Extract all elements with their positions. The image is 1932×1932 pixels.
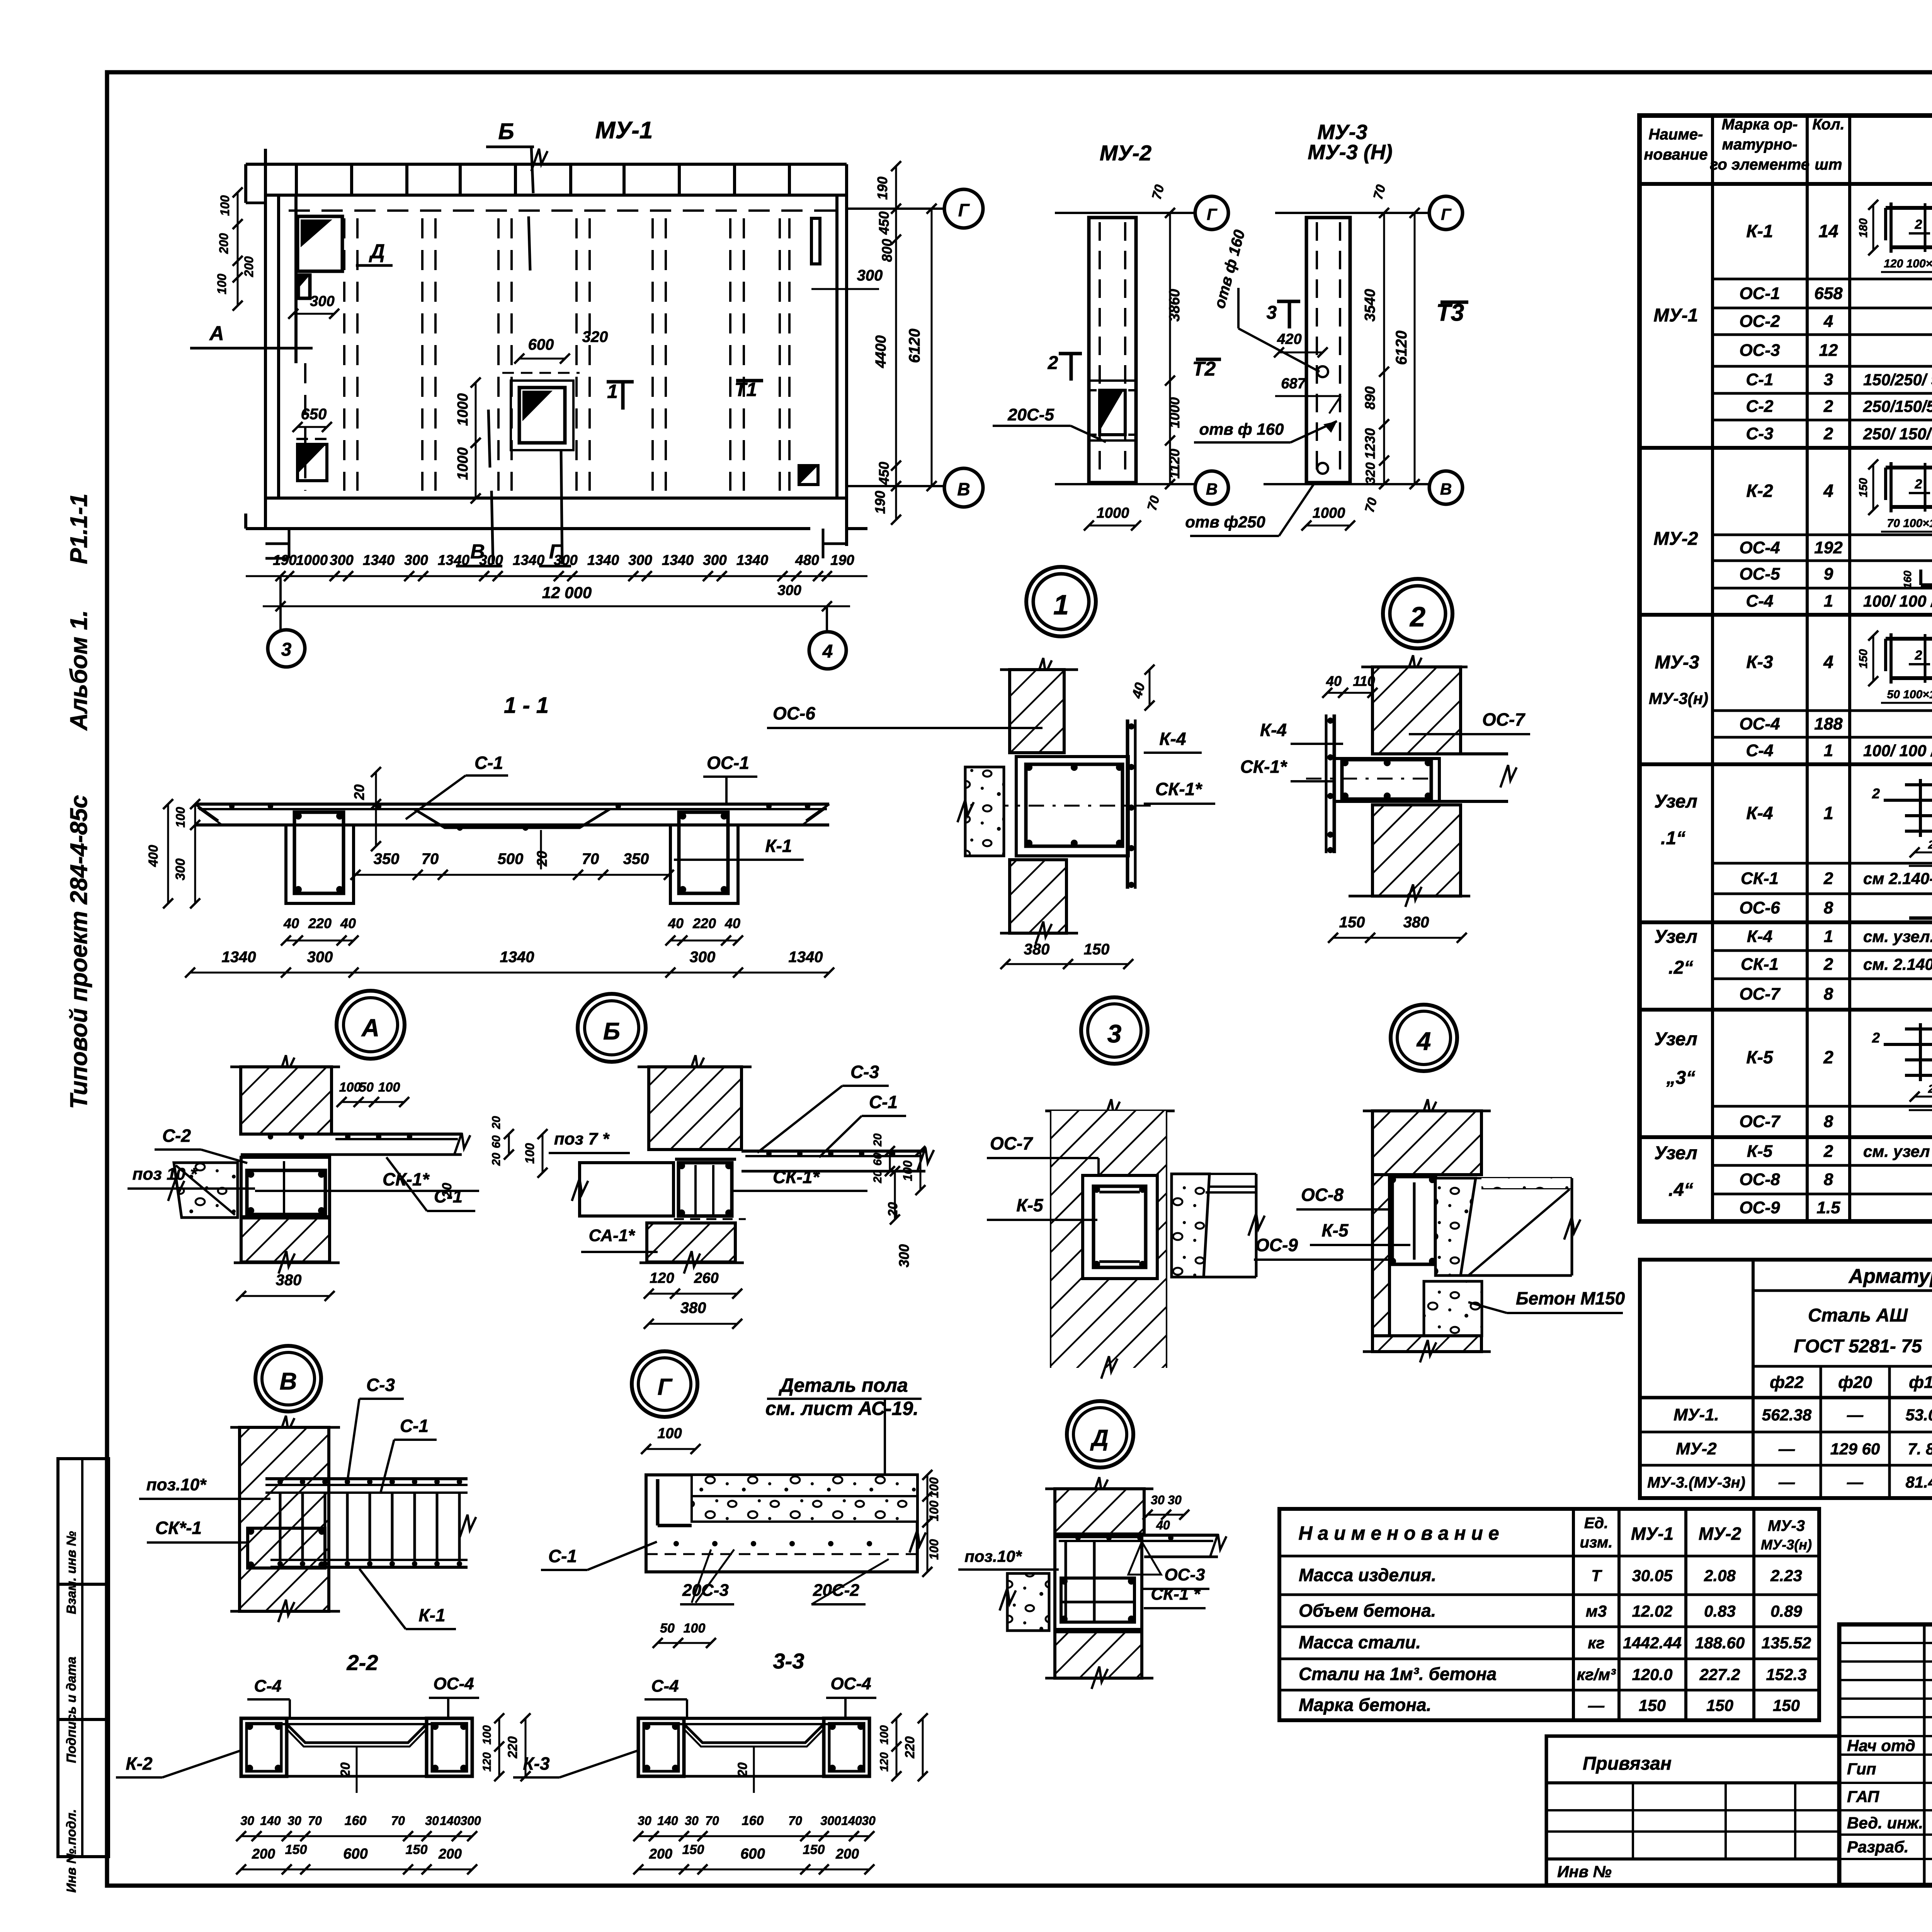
svg-text:160: 160 [742, 1813, 764, 1828]
svg-text:ОС-3: ОС-3 [1164, 1565, 1205, 1584]
svg-text:20: 20 [338, 1762, 353, 1777]
svg-text:кг: кг [1588, 1634, 1605, 1652]
svg-text:2: 2 [1915, 217, 1922, 232]
МУ-3 strip [1306, 218, 1350, 483]
svg-text:см. узел. „1“: см. узел. „1“ [1863, 927, 1932, 946]
svg-text:70: 70 [582, 850, 599, 867]
svg-text:ОС-2: ОС-2 [1739, 312, 1780, 331]
svg-text:С-4: С-4 [651, 1677, 679, 1696]
svg-text:1000: 1000 [296, 552, 328, 568]
МУ-2 labels [993, 353, 1221, 442]
svg-text:МУ-2: МУ-2 [1100, 141, 1151, 165]
svg-text:40: 40 [724, 915, 740, 931]
МУ-2 axis lines [1055, 196, 1228, 504]
svg-text:2: 2 [1872, 1030, 1880, 1046]
svg-text:60: 60 [490, 1135, 503, 1148]
svg-text:—: — [1778, 1473, 1795, 1491]
svg-text:Г: Г [1441, 205, 1452, 223]
svg-text:1: 1 [607, 381, 618, 402]
svg-text:1 - 1: 1 - 1 [504, 693, 549, 718]
svg-text:300: 300 [404, 552, 428, 568]
svg-text:152.3: 152.3 [1766, 1665, 1806, 1684]
svg-text:188: 188 [1814, 714, 1843, 733]
svg-text:380: 380 [680, 1299, 706, 1316]
svg-text:поз.10*: поз.10* [146, 1475, 207, 1494]
svg-text:100/ 100 / 5/ 5. В= 1100: 100/ 100 / 5/ 5. В= 1100 [1863, 742, 1932, 760]
svg-text:ф16: ф16 [1909, 1373, 1932, 1392]
svg-text:160: 160 [1901, 570, 1913, 588]
svg-text:—: — [1778, 1440, 1795, 1458]
svg-text:70: 70 [1149, 183, 1167, 201]
svg-text:1000: 1000 [455, 393, 471, 426]
svg-text:МУ-3(н): МУ-3(н) [1649, 689, 1708, 707]
svg-text:30: 30 [1168, 1493, 1182, 1507]
svg-text:С-1: С-1 [434, 1186, 463, 1206]
svg-text:200: 200 [649, 1846, 672, 1862]
section 1-1 dims between beams [350, 850, 674, 880]
svg-text:562.38: 562.38 [1762, 1406, 1812, 1424]
svg-text:150: 150 [406, 1842, 428, 1857]
svg-text:50 100×15 200×16 100×15 70: 50 100×15 200×16 100×15 70 [1887, 688, 1932, 701]
svg-text:100: 100 [481, 1725, 493, 1745]
svg-text:480: 480 [795, 552, 819, 568]
svg-text:ОС-5: ОС-5 [1739, 565, 1780, 583]
svg-text:81.40: 81.40 [1905, 1473, 1932, 1491]
svg-text:МУ-3: МУ-3 [1655, 652, 1699, 673]
section 1-1 labels [351, 753, 804, 869]
svg-text:Стали на 1м³. бетона: Стали на 1м³. бетона [1299, 1664, 1497, 1684]
svg-text:12 000: 12 000 [542, 583, 592, 602]
svg-text:100: 100 [173, 807, 187, 828]
svg-text:Подпись и дата: Подпись и дата [64, 1656, 79, 1763]
svg-text:Гип: Гип [1847, 1760, 1876, 1778]
svg-text:300: 300 [173, 859, 188, 881]
svg-text:150: 150 [1084, 941, 1110, 958]
svg-text:300: 300 [554, 552, 578, 568]
privyazan table [1546, 1736, 1839, 1885]
svg-text:К-1: К-1 [765, 836, 792, 856]
svg-text:МУ-1.: МУ-1. [1673, 1405, 1719, 1424]
svg-text:110: 110 [1353, 673, 1375, 689]
svg-text:188.60: 188.60 [1695, 1634, 1745, 1652]
svg-text:А: А [209, 322, 224, 345]
svg-text:С-3: С-3 [1746, 424, 1774, 443]
section 1-1 title [504, 693, 549, 718]
svg-text:20: 20 [871, 1170, 884, 1184]
svg-text:100: 100 [927, 1539, 941, 1560]
svg-text:Д: Д [1090, 1425, 1108, 1451]
svg-text:4: 4 [1416, 1027, 1431, 1055]
svg-text:40: 40 [283, 915, 299, 931]
svg-text:70: 70 [1371, 183, 1389, 201]
detail mark Г [632, 1351, 697, 1417]
svg-text:К-4: К-4 [1159, 729, 1186, 749]
svg-text:К-1: К-1 [1746, 221, 1773, 241]
svg-text:В: В [1440, 480, 1452, 498]
svg-text:Разраб.: Разраб. [1847, 1838, 1909, 1856]
МУ-1 right vertical dims [872, 161, 937, 525]
svg-text:190: 190 [830, 552, 854, 568]
svg-text:120: 120 [481, 1752, 493, 1772]
svg-text:150: 150 [1639, 1696, 1666, 1714]
specification table rows [1649, 188, 1932, 1224]
svg-text:Т: Т [1591, 1566, 1602, 1585]
svg-text:Кол.: Кол. [1812, 116, 1845, 133]
svg-text:Марка ор-: Марка ор- [1722, 116, 1798, 133]
node mark 4 [1391, 1005, 1457, 1071]
detail mark Д [1067, 1401, 1133, 1468]
svg-text:Нач отд: Нач отд [1847, 1736, 1915, 1755]
svg-text:3: 3 [1824, 370, 1833, 389]
svg-text:2.23: 2.23 [1770, 1566, 1802, 1585]
svg-text:ОС-3: ОС-3 [1739, 341, 1780, 360]
svg-text:150: 150 [1857, 478, 1870, 497]
svg-text:С-1: С-1 [548, 1546, 577, 1566]
svg-text:250: 250 [1928, 838, 1932, 851]
svg-text:30: 30 [287, 1814, 301, 1828]
svg-text:К-3: К-3 [523, 1753, 550, 1774]
svg-text:300: 300 [310, 293, 334, 310]
svg-text:С-1: С-1 [869, 1092, 898, 1112]
svg-text:6120: 6120 [1393, 331, 1410, 365]
svg-text:140: 140 [260, 1814, 281, 1828]
svg-text:0.83: 0.83 [1704, 1602, 1736, 1620]
svg-text:ф20: ф20 [1838, 1373, 1872, 1392]
svg-text:С-1: С-1 [474, 753, 503, 773]
svg-text:К-2: К-2 [1746, 481, 1773, 501]
svg-text:В: В [1206, 480, 1218, 498]
svg-text:Объем бетона.: Объем бетона. [1299, 1600, 1436, 1621]
МУ-2 strip [1089, 218, 1136, 483]
svg-text:100: 100 [684, 1621, 706, 1636]
detail В drawing [139, 1375, 476, 1629]
svg-text:К-5: К-5 [1016, 1195, 1044, 1215]
svg-text:1340: 1340 [587, 552, 619, 568]
svg-text:180: 180 [1857, 218, 1870, 238]
svg-text:3540: 3540 [1362, 289, 1378, 322]
svg-text:4: 4 [822, 641, 833, 662]
node 2 detail [1240, 655, 1530, 943]
svg-text:отв ф250: отв ф250 [1185, 513, 1265, 531]
МУ-3 dims [1301, 183, 1420, 531]
svg-text:70: 70 [705, 1814, 719, 1828]
svg-text:140: 140 [440, 1814, 461, 1828]
svg-text:600: 600 [528, 336, 554, 353]
svg-text:1230: 1230 [1362, 428, 1378, 459]
svg-text:120: 120 [650, 1270, 674, 1286]
grid axis circles 3 and 4 [268, 576, 846, 669]
title block [1839, 1624, 1932, 1885]
svg-text:40: 40 [668, 915, 684, 931]
node 4 detail [1254, 1099, 1625, 1362]
svg-text:СК-1*: СК-1* [383, 1169, 430, 1189]
specification table header [1644, 116, 1932, 173]
svg-text:150: 150 [1706, 1696, 1733, 1714]
axis circles Г and В of МУ-1 [847, 189, 983, 507]
specification table grid [1639, 116, 1932, 1221]
svg-text:100/ 100 / 5/ 5. В= 1100: 100/ 100 / 5/ 5. В= 1100 [1863, 592, 1932, 610]
svg-text:2: 2 [1823, 1142, 1833, 1161]
svg-text:ГОСТ 5281- 75: ГОСТ 5281- 75 [1794, 1336, 1922, 1357]
svg-text:С-4: С-4 [254, 1677, 282, 1696]
svg-text:СК-1*: СК-1* [1155, 779, 1202, 799]
svg-text:Б: Б [603, 1018, 620, 1045]
svg-text:Узел: Узел [1654, 927, 1697, 947]
svg-text:С-4: С-4 [1746, 592, 1774, 611]
detail Д drawing [958, 1477, 1226, 1689]
detail Б drawing [549, 1055, 934, 1329]
detail mark В [255, 1346, 321, 1412]
svg-text:Арматурные изделия: Арматурные изделия [1848, 1265, 1932, 1287]
svg-text:300: 300 [777, 582, 801, 598]
svg-text:Г: Г [1207, 205, 1218, 223]
node 3 detail [987, 1099, 1265, 1379]
svg-text:шт: шт [1815, 156, 1842, 173]
svg-text:650: 650 [301, 406, 327, 423]
svg-text:ОС-4: ОС-4 [1739, 538, 1780, 557]
svg-text:120: 120 [878, 1752, 891, 1772]
svg-text:В: В [280, 1368, 297, 1395]
characteristics table [1279, 1509, 1819, 1720]
svg-text:14: 14 [1818, 221, 1838, 241]
svg-text:изм.: изм. [1580, 1534, 1612, 1551]
svg-text:ОС-7: ОС-7 [1739, 985, 1781, 1003]
svg-text:200: 200 [252, 1846, 275, 1862]
svg-text:30: 30 [685, 1814, 699, 1828]
svg-text:40: 40 [1326, 673, 1342, 689]
svg-text:.1“: .1“ [1661, 828, 1685, 849]
МУ-3 axis lines [1264, 196, 1463, 504]
svg-text:7. 84: 7. 84 [1908, 1440, 1932, 1458]
svg-text:ф22: ф22 [1770, 1373, 1804, 1392]
svg-text:1000: 1000 [1313, 505, 1345, 521]
svg-text:1442.44: 1442.44 [1623, 1634, 1682, 1652]
svg-text:200: 200 [217, 233, 231, 254]
svg-text:20: 20 [490, 1153, 503, 1166]
svg-text:МУ-3: МУ-3 [1768, 1517, 1805, 1534]
svg-text:300: 300 [857, 267, 883, 284]
svg-text:3860: 3860 [1167, 289, 1183, 322]
svg-text:.2“: .2“ [1668, 957, 1693, 978]
svg-text:250/ 150/ 5/ 9. В= 2300: 250/ 150/ 5/ 9. В= 2300 [1863, 425, 1932, 443]
svg-text:120.0: 120.0 [1632, 1665, 1672, 1684]
svg-text:Ед.: Ед. [1584, 1515, 1609, 1532]
svg-text:м3: м3 [1586, 1602, 1607, 1620]
svg-text:МУ-2: МУ-2 [1653, 529, 1698, 549]
svg-text:2: 2 [1823, 955, 1833, 974]
МУ-2 title [1100, 141, 1151, 165]
plan МУ-1 dashed ribs [305, 218, 789, 491]
svg-text:20: 20 [351, 784, 367, 800]
svg-text:2: 2 [1915, 477, 1922, 492]
svg-text:50: 50 [660, 1621, 675, 1636]
svg-text:—: — [1588, 1696, 1605, 1714]
svg-text:СК-1*: СК-1* [773, 1167, 820, 1187]
svg-text:150: 150 [1773, 1696, 1800, 1714]
svg-text:см. лист АС-19.: см. лист АС-19. [765, 1398, 918, 1419]
svg-text:4: 4 [1823, 481, 1833, 501]
svg-text:150: 150 [285, 1842, 307, 1857]
svg-text:ОС-7: ОС-7 [1482, 709, 1526, 730]
svg-text:МУ-1: МУ-1 [595, 117, 653, 144]
svg-text:4: 4 [1823, 312, 1833, 331]
svg-text:70: 70 [1362, 496, 1380, 514]
svg-text:30: 30 [1151, 1493, 1165, 1507]
svg-text:Типовой проект 284-4-85с: Типовой проект 284-4-85с [66, 795, 92, 1109]
svg-text:Масса изделия.: Масса изделия. [1299, 1565, 1436, 1585]
svg-text:СК-1: СК-1 [1741, 869, 1779, 888]
svg-text:Сталь АШ: Сталь АШ [1808, 1305, 1908, 1326]
detail mark А [337, 991, 405, 1059]
section 1-1 left dims [146, 799, 200, 908]
plan МУ-1 openings [296, 216, 820, 485]
svg-text:В: В [957, 479, 970, 499]
svg-text:А: А [361, 1014, 379, 1042]
svg-text:СА-1*: СА-1* [589, 1226, 636, 1245]
svg-text:12: 12 [1819, 341, 1838, 360]
svg-text:687: 687 [1281, 376, 1306, 392]
svg-text:К-1: К-1 [418, 1605, 445, 1625]
svg-text:ОС-8: ОС-8 [1301, 1185, 1344, 1205]
svg-text:200: 200 [438, 1846, 462, 1862]
svg-text:ОС-7: ОС-7 [990, 1133, 1033, 1153]
svg-text:70: 70 [391, 1814, 405, 1828]
svg-text:4: 4 [1823, 652, 1833, 672]
node mark 3 [1081, 997, 1148, 1064]
svg-text:300: 300 [690, 949, 716, 966]
svg-text:400: 400 [146, 845, 161, 867]
svg-text:30: 30 [862, 1814, 876, 1828]
svg-text:К-5: К-5 [1747, 1142, 1773, 1161]
svg-text:ОС-7: ОС-7 [1739, 1112, 1781, 1131]
svg-text:190: 190 [874, 177, 890, 200]
svg-text:Узел: Узел [1654, 791, 1697, 812]
svg-text:227.2: 227.2 [1699, 1665, 1740, 1684]
svg-text:600: 600 [740, 1846, 765, 1862]
svg-text:100: 100 [339, 1080, 361, 1095]
svg-text:3: 3 [1267, 303, 1277, 323]
svg-text:К-5: К-5 [1746, 1047, 1774, 1067]
svg-text:320: 320 [1363, 463, 1378, 485]
svg-text:1: 1 [1053, 590, 1069, 621]
svg-text:160: 160 [345, 1813, 367, 1828]
svg-text:ОС-8: ОС-8 [1739, 1170, 1780, 1189]
svg-text:890: 890 [1362, 386, 1378, 410]
svg-text:Марка бетона.: Марка бетона. [1299, 1695, 1431, 1715]
svg-text:40: 40 [1129, 681, 1148, 700]
section mark Б [486, 119, 548, 270]
svg-text:380: 380 [1403, 914, 1429, 931]
svg-text:800: 800 [879, 239, 895, 262]
node mark 2 [1383, 579, 1452, 648]
svg-text:40: 40 [340, 915, 356, 931]
МУ-3 titles [1308, 121, 1393, 164]
svg-text:450: 450 [876, 211, 892, 235]
svg-text:2: 2 [1048, 353, 1058, 373]
svg-text:120 100×15 200×16 100×15 30: 120 100×15 200×16 100×15 30 [1884, 257, 1932, 270]
svg-text:20: 20 [735, 1762, 750, 1777]
svg-text:3-3: 3-3 [773, 1649, 804, 1673]
svg-text:2: 2 [1823, 869, 1833, 888]
svg-text:100: 100 [215, 274, 229, 294]
svg-text:150: 150 [1857, 649, 1870, 668]
svg-text:ГАП: ГАП [1847, 1787, 1879, 1806]
svg-text:1: 1 [1824, 927, 1833, 946]
svg-text:Б: Б [498, 119, 514, 144]
svg-text:100: 100 [878, 1725, 891, 1745]
svg-text:2: 2 [1823, 397, 1833, 416]
svg-text:Альбом 1.: Альбом 1. [66, 610, 92, 731]
svg-text:МУ-1: МУ-1 [1631, 1524, 1673, 1544]
svg-text:1340: 1340 [500, 949, 534, 966]
svg-text:ОС-4: ОС-4 [1739, 714, 1780, 733]
svg-text:150: 150 [803, 1842, 825, 1857]
svg-text:300: 300 [307, 949, 333, 966]
svg-text:ОС-6: ОС-6 [773, 703, 815, 723]
svg-text:К-3: К-3 [1746, 652, 1773, 672]
svg-text:220: 220 [308, 915, 332, 931]
svg-text:190: 190 [273, 552, 297, 568]
svg-text:2: 2 [1409, 602, 1425, 633]
svg-text:СК-1: СК-1 [1741, 955, 1779, 974]
svg-text:ОС-9: ОС-9 [1739, 1198, 1780, 1217]
svg-text:300: 300 [460, 1814, 481, 1828]
svg-text:ОС-4: ОС-4 [830, 1674, 871, 1693]
svg-text:70: 70 [788, 1814, 802, 1828]
svg-text:1340: 1340 [789, 949, 823, 966]
МУ-2 dims [1084, 183, 1183, 531]
svg-text:го элементе: го элементе [1710, 156, 1810, 173]
svg-text:2: 2 [1915, 648, 1922, 663]
svg-text:2.08: 2.08 [1704, 1566, 1736, 1585]
svg-text:300: 300 [896, 1244, 912, 1267]
svg-text:поз 7 *: поз 7 * [554, 1129, 610, 1148]
svg-text:Масса стали.: Масса стали. [1299, 1632, 1421, 1652]
svg-text:70: 70 [308, 1814, 322, 1828]
svg-text:1340: 1340 [363, 552, 395, 568]
svg-text:100: 100 [901, 1160, 915, 1181]
svg-text:Привязан: Привязан [1583, 1753, 1672, 1774]
svg-text:МУ-2: МУ-2 [1676, 1439, 1717, 1458]
svg-text:350: 350 [623, 850, 649, 867]
svg-text:1: 1 [1823, 803, 1833, 823]
svg-text:см. узел „ 3 “: см. узел „ 3 “ [1863, 1142, 1932, 1160]
svg-text:30.05: 30.05 [1632, 1566, 1673, 1585]
svg-text:2: 2 [1823, 424, 1833, 443]
svg-text:200: 200 [242, 256, 256, 277]
svg-text:8: 8 [1824, 1112, 1833, 1131]
svg-text:3: 3 [1107, 1019, 1122, 1048]
section 1-1 drawing [195, 804, 829, 903]
svg-text:140: 140 [841, 1814, 862, 1828]
svg-text:3: 3 [281, 639, 292, 660]
svg-text:1340: 1340 [222, 949, 256, 966]
svg-text:8: 8 [1824, 985, 1833, 1003]
svg-text:Г: Г [958, 200, 970, 220]
svg-text:Деталь пола: Деталь пола [778, 1374, 908, 1396]
svg-text:К-4: К-4 [1747, 927, 1772, 946]
svg-text:250/150/5/9. В= 1300 /2.: 250/150/5/9. В= 1300 /2. [1863, 397, 1932, 415]
svg-text:1340: 1340 [513, 552, 545, 568]
svg-text:С-1: С-1 [400, 1416, 429, 1436]
svg-text:20: 20 [490, 1116, 503, 1129]
svg-text:Взам. инв №: Взам. инв № [64, 1531, 79, 1614]
svg-text:300: 300 [703, 552, 727, 568]
svg-text:СК-1 *: СК-1 * [1151, 1585, 1201, 1604]
svg-text:см 2.140-1с в.1. лист 23.: см 2.140-1с в.1. лист 23. [1863, 869, 1932, 888]
svg-text:1120: 1120 [1167, 449, 1182, 478]
svg-text:СК*-1: СК*-1 [155, 1518, 202, 1538]
